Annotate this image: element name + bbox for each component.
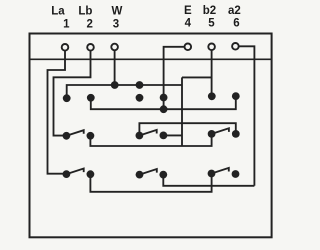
wire from terminal 6 a2 right and down to bus N5: [238, 46, 254, 186]
svg-text:2: 2: [86, 19, 92, 31]
svg-text:a2: a2: [228, 5, 241, 17]
terminal 1 La: [62, 44, 69, 51]
contact K6 row A: [232, 130, 240, 138]
contact dot P1: [63, 94, 71, 102]
svg-text:6: 6: [233, 18, 239, 30]
contact K11 row B: [208, 170, 216, 178]
contact K3 row A: [136, 132, 144, 140]
terminal 6 a2: [232, 43, 239, 50]
wire from terminal 1 La to contact K7: [48, 50, 66, 173]
enclosure box: [30, 34, 272, 238]
wire from terminal 2 Lb to contact K1: [54, 50, 91, 135]
contact K1 row A: [63, 132, 71, 140]
switch arm S4: [66, 169, 83, 175]
stub wire from contact K4 to vertical link: [163, 134, 182, 136]
contact K9 row B: [136, 171, 144, 179]
contact K2 row A: [87, 132, 95, 140]
bus N4 connecting row A outer contacts: [90, 134, 211, 146]
terminal 5 b2: [208, 44, 215, 51]
svg-text:3: 3: [113, 19, 119, 31]
contact dot P5 on b2 wire: [208, 92, 216, 100]
contact dot P2: [87, 94, 95, 102]
contact dot P3: [136, 94, 144, 102]
junction dot J3 on bus N2: [160, 105, 168, 113]
junction dot J1 W on bus N1: [111, 81, 119, 89]
contact K12 row B: [232, 170, 240, 178]
svg-text:Lb: Lb: [78, 6, 92, 18]
contact K5 row A: [208, 130, 216, 138]
wire branch from bus N1 riser to b2 stem: [182, 76, 212, 78]
wire from terminal 4 E down through contacts: [164, 47, 185, 109]
contact dot P4 on E wire: [160, 94, 168, 102]
switch arm S6: [212, 168, 229, 174]
svg-text:b2: b2: [203, 5, 216, 17]
svg-text:La: La: [51, 6, 65, 18]
wire from terminal 5 b2 down to contact: [211, 50, 213, 96]
svg-text:4: 4: [185, 18, 192, 30]
contact K4 row A: [160, 132, 168, 140]
svg-text:5: 5: [208, 18, 215, 30]
bus N1 horizontal with drop to contact dot: [67, 85, 182, 98]
vertical link wire at x182: [181, 77, 183, 146]
contact K8 row B: [87, 170, 95, 178]
terminal strip divider line: [30, 58, 272, 60]
contact K10 row B: [159, 171, 167, 179]
switch arm S5: [140, 169, 157, 175]
terminal 2 Lb: [87, 44, 94, 51]
contact K7 row B: [63, 170, 71, 178]
switch arm S2: [139, 130, 156, 136]
bus N6 connecting row B outer contacts: [90, 174, 211, 192]
switch arm S1: [66, 130, 83, 136]
terminal 3 W: [111, 44, 118, 51]
bus N2 horizontal between upper contact dots: [91, 96, 236, 109]
switch arm S3: [212, 128, 229, 134]
svg-text:W: W: [111, 6, 122, 18]
junction dot J2 on bus N1: [136, 81, 144, 89]
svg-text:E: E: [184, 5, 192, 17]
svg-text:1: 1: [63, 19, 70, 31]
contact dot P6: [232, 92, 240, 100]
bus N5 from contact K10 to a2 wire: [163, 175, 254, 186]
terminal 4 E: [185, 44, 192, 51]
bus N3 horizontal feeding row A contacts: [139, 123, 235, 135]
wire from terminal 3 W down to bus N1: [114, 50, 116, 85]
